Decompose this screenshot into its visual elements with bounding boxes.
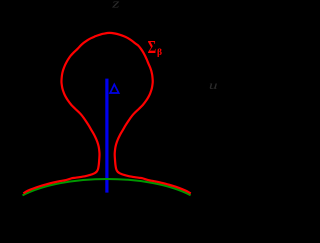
blue vertical line (Delta marker) <box>105 79 108 193</box>
svg-text:Σ: Σ <box>148 38 157 58</box>
svg-text:z: z <box>111 0 119 11</box>
red bubble curve Sigma_beta <box>23 33 190 194</box>
label Delta (blue triangle glyph) <box>110 84 119 93</box>
svg-text:u: u <box>209 79 218 92</box>
svg-text:β: β <box>157 48 162 58</box>
green surface curve <box>23 179 191 195</box>
